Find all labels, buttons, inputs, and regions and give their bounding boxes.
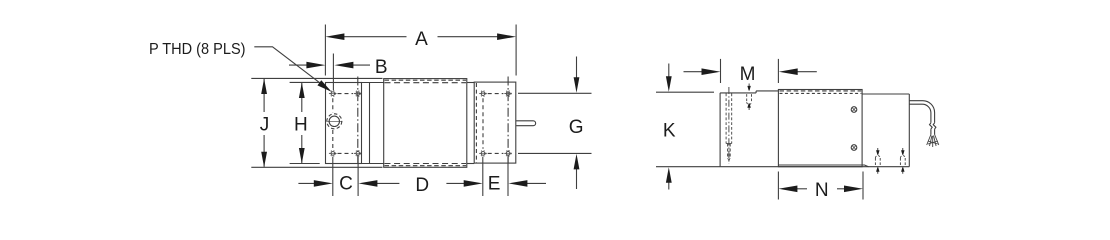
side view step riser	[755, 91, 757, 93]
dimension E extension left	[482, 157, 484, 196]
dimension N tail left	[796, 188, 808, 190]
tapped hole top-left2	[354, 91, 362, 97]
arrowhead A left	[325, 33, 344, 40]
svg-text:C: C	[339, 174, 353, 195]
bottom hole mark 1 slot	[875, 156, 880, 166]
arrowhead bottom mark1 down	[877, 148, 879, 155]
svg-text:B: B	[375, 57, 388, 78]
hidden line between right holes top row	[488, 93, 504, 95]
side view top edge left	[720, 92, 756, 94]
arrowhead H top	[299, 83, 305, 99]
screw upper	[851, 107, 857, 113]
load hole centermarks	[326, 120, 342, 122]
dimension C tail left	[298, 182, 316, 184]
tapped hole bottom-right	[479, 151, 487, 157]
shallow hole slot bottom	[747, 102, 752, 104]
arrowhead D right	[464, 180, 483, 187]
side view right edge	[908, 94, 910, 167]
hidden hole bottom step	[726, 143, 732, 145]
arrowhead K bottom	[666, 167, 672, 183]
svg-text:K: K	[663, 121, 676, 142]
svg-text:J: J	[260, 114, 270, 135]
tapped hole top-left	[329, 91, 337, 97]
tapped hole top-right2	[504, 91, 512, 97]
dimension B tail left	[289, 64, 313, 66]
dimension J line lower	[263, 135, 265, 167]
cable pin (plan view)	[516, 121, 536, 126]
dimension B tail right	[348, 64, 371, 66]
arrowhead bottom mark2 up	[902, 167, 904, 174]
svg-text:P THD (8 PLS): P THD (8 PLS)	[149, 41, 246, 58]
center block (plan view)	[384, 79, 467, 168]
svg-text:E: E	[488, 174, 501, 195]
arrowhead M left	[702, 68, 721, 75]
hidden pilot hole right	[729, 144, 731, 159]
dimension M tail left	[684, 71, 704, 73]
hidden line left hole column lower	[332, 130, 334, 149]
arrowhead G top	[574, 77, 580, 93]
hidden edge near bottom of center block	[385, 165, 467, 167]
dimension G arrow line bottom	[576, 166, 578, 189]
svg-text:N: N	[815, 180, 829, 201]
cable outer	[909, 101, 934, 123]
dimension C extension left	[332, 157, 334, 196]
dimension E extension right	[507, 157, 509, 196]
svg-text:D: D	[415, 175, 429, 196]
arrowhead E right	[508, 180, 527, 187]
cable break right	[933, 123, 936, 129]
dimension G extension bottom	[518, 152, 592, 154]
svg-text:G: G	[569, 117, 584, 138]
arrowhead leader P THD	[317, 80, 331, 92]
svg-text:H: H	[294, 114, 308, 135]
side view block bottom line	[778, 165, 868, 167]
dimension N tail right	[837, 188, 846, 190]
wire web bottom left	[362, 163, 384, 165]
wire web top right	[467, 82, 474, 84]
dimension J extension top	[251, 77, 382, 79]
tapped hole bottom-left2	[354, 151, 362, 157]
hidden edge near top of center block	[385, 79, 467, 81]
dimension B extension	[332, 54, 334, 91]
arrowhead top hole up	[748, 103, 750, 110]
hidden line between left holes top row	[338, 93, 354, 95]
arrowhead J top	[261, 79, 267, 95]
dimension K extension bottom	[656, 166, 720, 168]
arrowhead G bottom	[574, 154, 580, 170]
arrowhead C left	[314, 180, 333, 187]
hidden line between left holes bottom row	[338, 152, 354, 154]
tapped hole top-right	[479, 91, 487, 97]
dimension D tail left	[375, 182, 400, 184]
dimension C extension right	[357, 157, 359, 196]
dimension H line lower	[301, 135, 303, 163]
svg-text:A: A	[415, 29, 428, 50]
dimension G arrow line top	[576, 57, 578, 81]
dimension M extension right	[777, 59, 779, 83]
hole centerline	[728, 87, 730, 164]
cable inner	[909, 104, 931, 123]
wire web top left	[362, 82, 384, 84]
hidden line left hole column upper	[332, 98, 334, 112]
hidden pilot hole left	[727, 144, 729, 159]
shallow hole top face: slot	[747, 94, 752, 102]
left end block (plan view)	[326, 83, 362, 164]
dimension G extension top	[518, 92, 592, 94]
arrowhead B left	[306, 62, 325, 69]
arrowhead N left	[778, 186, 797, 193]
dimension H extension top	[290, 81, 320, 83]
hidden tapped hole bore right	[731, 93, 733, 143]
arrowhead J bottom	[261, 152, 267, 168]
bottom hole mark 2 slot	[900, 156, 905, 166]
hidden step edge behind block	[780, 90, 862, 92]
svg-text:M: M	[740, 64, 756, 85]
cable break left	[930, 123, 933, 129]
arrowhead B right	[334, 62, 353, 69]
thread circle dashed	[327, 114, 342, 129]
centerline left block col2	[357, 77, 359, 164]
dimension M extension left	[720, 59, 722, 83]
arrowhead top hole down	[748, 84, 750, 91]
right end block (plan view)	[474, 82, 516, 163]
hidden beam top edge behind center block	[385, 82, 467, 84]
dimension J extension bottom	[251, 166, 382, 168]
tapped hole bottom-right2	[504, 151, 512, 157]
side view right section top	[862, 93, 909, 95]
arrowhead H bottom	[299, 148, 305, 164]
hidden line right hole column	[482, 98, 484, 149]
dimension A line left	[339, 36, 407, 38]
side view body left edge	[719, 93, 721, 167]
hidden beam bottom edge behind center block	[385, 163, 467, 165]
dimension M tail right	[796, 71, 817, 73]
wire web bottom right	[467, 163, 474, 165]
arrowhead K top	[666, 76, 672, 92]
hidden line between right holes bottom row	[488, 152, 504, 154]
load hole circle	[329, 116, 339, 126]
dimension K extension top	[656, 91, 714, 93]
dimension H extension bottom	[290, 163, 320, 165]
cable lower right	[934, 129, 936, 134]
dimension N extension left	[777, 172, 779, 200]
dimension K arrow line bottom	[668, 181, 670, 190]
dimension A extension right	[515, 25, 517, 76]
dimension K arrow line top	[668, 64, 670, 79]
hidden step edge in right block	[475, 83, 477, 163]
arrowhead C right / D left	[358, 180, 377, 187]
arrowhead bottom mark1 up	[877, 167, 879, 174]
arrowhead A right	[497, 33, 516, 40]
side view step top	[756, 90, 778, 92]
dimension E tail right	[525, 182, 547, 184]
hidden body top edge behind block	[780, 92, 862, 94]
hidden tapped hole bore left	[725, 93, 727, 143]
arrowhead M right	[779, 68, 798, 75]
leader line P THD	[254, 47, 328, 89]
centerline right block col2	[507, 77, 509, 164]
side view center block	[778, 90, 862, 167]
dimension H line upper	[301, 83, 303, 112]
tapped hole bottom-left	[329, 151, 337, 157]
screw lower	[851, 145, 857, 151]
dimension N extension right	[862, 172, 864, 200]
cable lower left	[930, 129, 932, 134]
step line left	[369, 83, 371, 164]
dimension A line right	[438, 36, 504, 38]
arrowhead bottom mark2 down	[902, 148, 904, 155]
arrowhead N right	[844, 186, 863, 193]
dimension A extension left	[324, 25, 326, 76]
frayed wires	[927, 135, 939, 148]
dimension J line upper	[263, 79, 265, 112]
dimension D tail right	[446, 182, 466, 184]
drill point	[728, 158, 730, 161]
side view bottom edge	[720, 166, 909, 168]
